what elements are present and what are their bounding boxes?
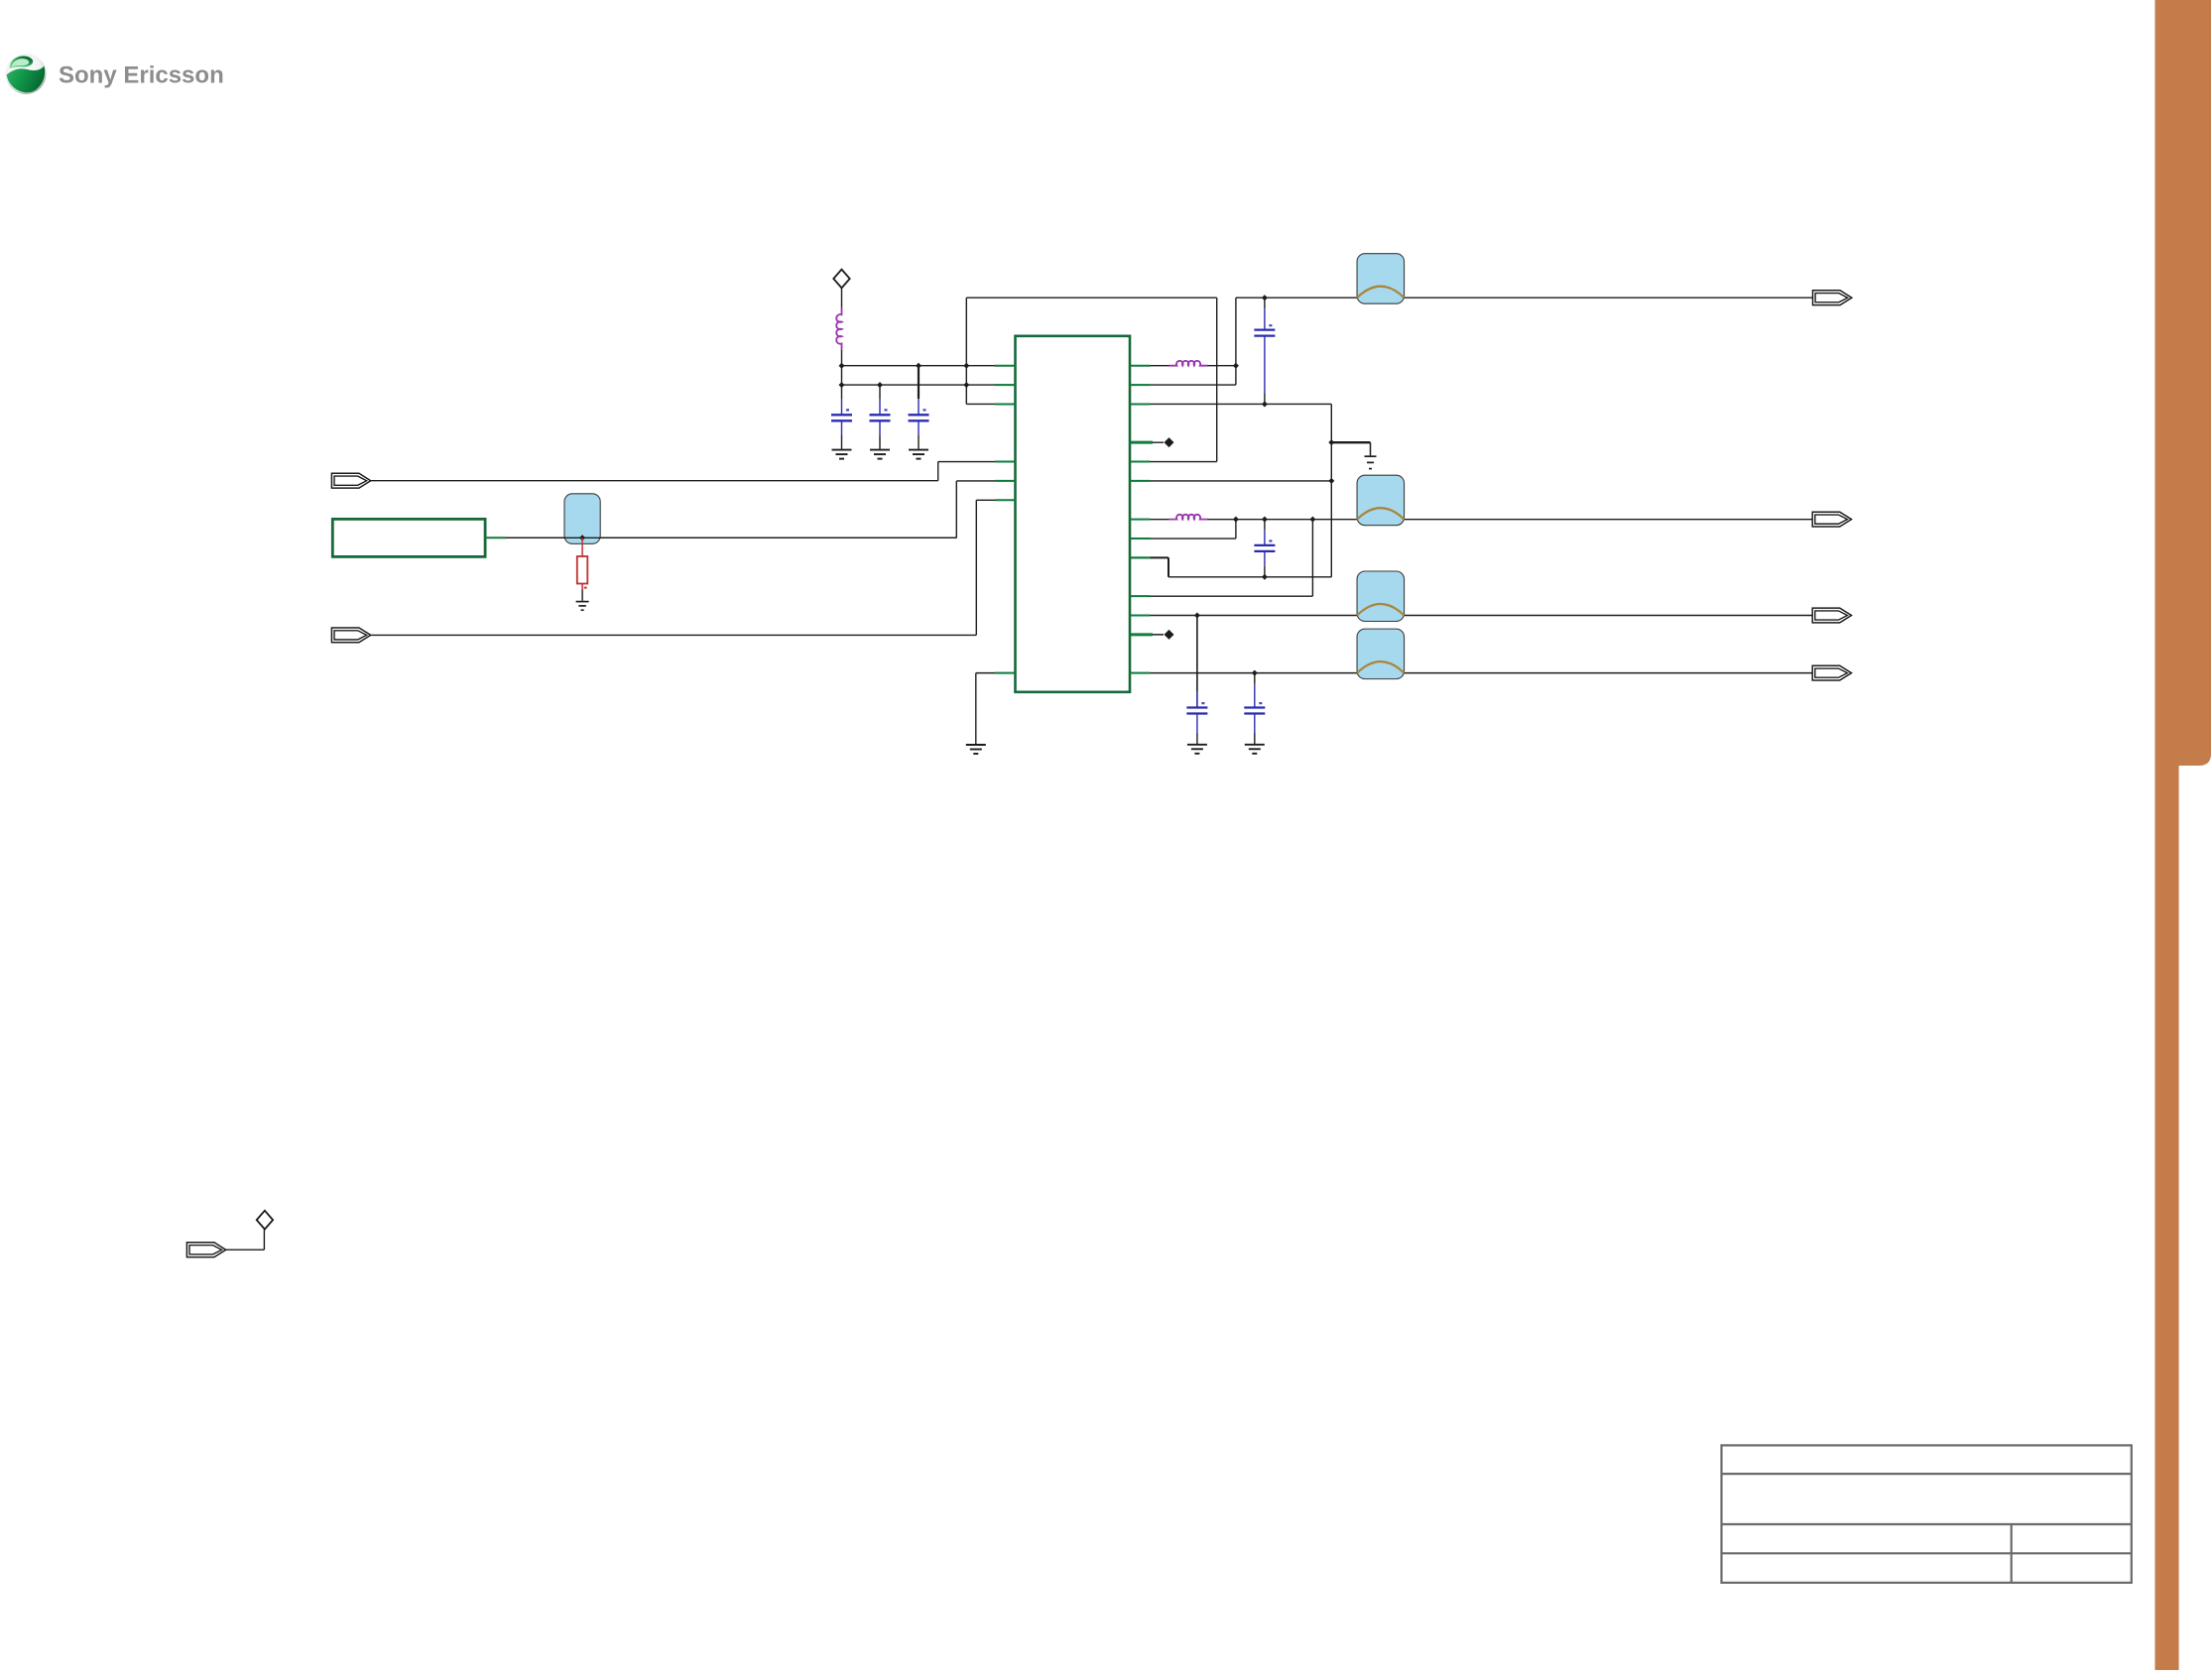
svg-text:Sony Ericsson: Sony Ericsson [59, 62, 224, 89]
